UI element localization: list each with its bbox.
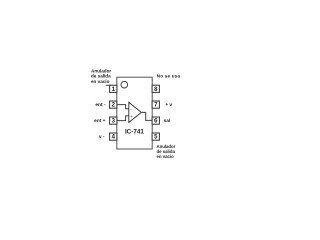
svg-text:+ v: + v: [165, 103, 172, 108]
svg-text:No se usa: No se usa: [157, 73, 181, 78]
pin 4 box: [110, 133, 117, 140]
svg-text:sal: sal: [164, 118, 171, 124]
svg-text:-: -: [130, 106, 132, 111]
label top-left: Anulador de salida en vacio: [91, 69, 111, 85]
op-amp U1 triangle: [129, 102, 142, 122]
label bottom-right: Anulador de salida en vacio (pin 5): [157, 144, 176, 159]
pin 1 box: [110, 85, 117, 92]
wire pin2 to inverting input: [117, 105, 129, 109]
pin 3 box: [110, 117, 117, 124]
svg-text:ent +: ent +: [94, 118, 106, 124]
pin 7 box: [152, 101, 159, 108]
IC body: [117, 77, 152, 149]
pin 8 box: [152, 85, 159, 92]
svg-text:ent -: ent -: [95, 102, 106, 108]
leader line label to pin1: [106, 84, 111, 87]
svg-text:+: +: [130, 114, 133, 119]
pin 5 box: [152, 133, 159, 140]
wire pin3 to non-inverting input: [117, 116, 129, 121]
svg-text:v -: v -: [99, 135, 105, 140]
notch circle: [121, 81, 128, 88]
pin 6 box: [152, 117, 159, 124]
wire output to pin6: [141, 112, 152, 120]
svg-text:de salida: de salida: [91, 74, 111, 79]
svg-text:en vacío: en vacío: [157, 154, 175, 159]
svg-text:en vacío: en vacío: [91, 79, 110, 84]
pin 2 box: [110, 101, 117, 108]
svg-text:IC-741: IC-741: [125, 129, 144, 136]
